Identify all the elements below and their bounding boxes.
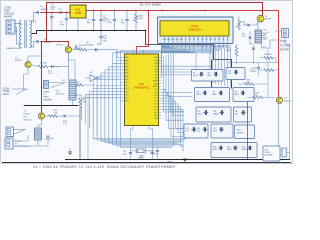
label R2 (83, 99, 87, 104)
svg-text:PB1: PB1 (125, 60, 128, 62)
svg-text:AUTO: AUTO (213, 148, 219, 151)
wire RL2 gnd (72, 100, 74, 105)
wire mid vertical (75, 60, 82, 95)
svg-text:PC4: PC4 (154, 98, 157, 100)
svg-text:4.7V: 4.7V (63, 123, 68, 125)
capacitor C12 (250, 63, 260, 77)
label R1 (40, 63, 48, 65)
svg-text:10K: 10K (246, 82, 250, 84)
svg-text:7805: 7805 (75, 11, 82, 15)
junction 12V (46, 12, 48, 14)
label X1 (33, 21, 37, 24)
LCD1 display (160, 21, 229, 36)
label T4 (15, 58, 22, 63)
wire T4 down (24, 68, 28, 90)
transformer X1 (20, 20, 32, 48)
switch box S9 (234, 107, 252, 122)
junctions GND rail (51, 30, 128, 32)
resistor R15 (226, 44, 238, 63)
svg-text:16V: 16V (103, 41, 107, 43)
svg-text:PC7: PC7 (154, 89, 157, 91)
diode D7 label (263, 47, 266, 49)
bus IC2 port C to switch matrix (161, 89, 192, 150)
label ZD2 (242, 34, 247, 38)
svg-text:GND: GND (167, 161, 172, 163)
bus IC2 right lower (164, 52, 184, 145)
svg-text:PB6: PB6 (125, 76, 128, 78)
bus LCD control top (162, 44, 230, 53)
svg-text:MED: MED (235, 94, 240, 96)
wire ZD1 right (54, 66, 69, 67)
switch box S12 (211, 124, 233, 138)
LCD module box (158, 17, 234, 44)
zener ZD2 (63, 114, 68, 125)
label ZD1 (48, 71, 53, 76)
svg-text:12V 1C/O: 12V 1C/O (24, 119, 33, 121)
svg-text:PB2: PB2 (125, 63, 128, 65)
diode D2 (37, 40, 39, 43)
label D1 (41, 6, 49, 11)
capacitor C3 (92, 10, 95, 30)
capacitor C9 (151, 151, 159, 156)
svg-text:5.1V: 5.1V (48, 73, 53, 75)
svg-text:PB0: PB0 (125, 57, 128, 59)
svg-text:0.1µ: 0.1µ (107, 22, 112, 24)
wire box links right (247, 102, 249, 160)
svg-text:PD0: PD0 (125, 98, 128, 100)
svg-text:JHD162A: JHD162A (188, 27, 201, 31)
diode D4 (74, 44, 81, 50)
wire D1 to IC1 input (40, 12, 70, 14)
svg-text:8MHz: 8MHz (139, 158, 144, 160)
label diode note (140, 2, 162, 6)
wire T5 emitter (68, 53, 75, 60)
bus LCD data to IC2 port (161, 44, 194, 78)
wire CON2 to X1 (14, 24, 22, 45)
label RL3 (263, 33, 268, 40)
label C10 (103, 36, 108, 43)
wire R14 (45, 115, 63, 117)
transistor T3 (257, 15, 264, 22)
junction GND (145, 30, 147, 32)
transistor T2 (276, 97, 282, 103)
svg-text:PC2: PC2 (154, 104, 157, 106)
diode D7v (250, 44, 256, 63)
resistor R18 (238, 79, 268, 85)
svg-text:PB7: PB7 (125, 79, 128, 81)
switch box S13 S14 S15 (211, 143, 257, 158)
resistor R17 (253, 68, 279, 73)
capacitor C5 (113, 10, 116, 30)
wire GND bus bottom (65, 159, 290, 161)
svg-text:ATMEGA32: ATMEGA32 (134, 86, 150, 90)
label C3 (87, 20, 91, 25)
label D2 (44, 39, 52, 44)
svg-text:RS: RS (176, 39, 178, 41)
switch box S2 S3 (192, 70, 224, 82)
svg-text:BC547: BC547 (57, 44, 64, 46)
label C1 (51, 4, 56, 11)
svg-text:PA1: PA1 (155, 59, 158, 62)
ground symbol (167, 159, 187, 163)
svg-text:12V 1C/O: 12V 1C/O (56, 93, 65, 95)
wire right cross (228, 62, 278, 63)
svg-text:PB5: PB5 (125, 73, 128, 75)
wire R4 right (87, 49, 95, 51)
bus IC2 left lower (82, 85, 121, 136)
border frame (1, 1, 293, 164)
capacitor C10 below gnd (97, 31, 103, 45)
svg-text:MELT: MELT (213, 94, 219, 96)
LED D8 (46, 136, 54, 146)
wire T5 base (72, 49, 79, 51)
capacitor C4 (99, 10, 102, 30)
relay RL1 contacts top (12, 88, 28, 94)
gate N1 (85, 72, 102, 81)
capacitor C6 (125, 10, 128, 30)
label RL2 (56, 91, 65, 96)
relay RL2 contacts (49, 80, 68, 88)
svg-text:XT2: XT2 (125, 91, 128, 93)
svg-text:BC547: BC547 (284, 101, 291, 103)
LCD pins 1-16 (163, 36, 229, 48)
svg-text:VSS: VSS (163, 39, 166, 41)
wire black relay left (24, 105, 78, 107)
svg-text:SAMI: SAMI (214, 113, 219, 116)
label C4 (103, 16, 109, 23)
transistor T5 (65, 47, 71, 53)
bus link left (113, 50, 163, 63)
svg-text:PC1: PC1 (154, 107, 157, 109)
svg-text:PA5: PA5 (155, 71, 158, 74)
switch box S4 S5 (195, 88, 230, 102)
svg-text:R1 10K: R1 10K (40, 63, 48, 65)
label CON4 (3, 89, 11, 96)
svg-text:PD6: PD6 (154, 115, 157, 117)
svg-text:K: K (227, 39, 228, 41)
preset VR1 (133, 10, 139, 30)
svg-text:TO MO: TO MO (3, 91, 11, 93)
bus drops right column (213, 46, 231, 87)
wire +5V drop to IC2 (137, 11, 149, 55)
diode D1 (37, 11, 39, 14)
label CON5 (15, 141, 31, 148)
wire 12V left drop (42, 13, 47, 114)
svg-text:D6: D6 (214, 39, 216, 41)
diode D9 (86, 42, 97, 51)
wire 12V to T5 (41, 42, 69, 89)
wire T3 down (257, 22, 259, 31)
label C6 (121, 20, 125, 25)
wire GND rail top (31, 31, 146, 34)
svg-text:D5: D5 (210, 39, 212, 41)
svg-text:1N4007: 1N4007 (41, 9, 49, 11)
wire T4 base link (31, 65, 38, 67)
svg-text:BC547: BC547 (265, 19, 272, 21)
wire D1 out (39, 12, 41, 14)
wire right edge (285, 38, 290, 160)
wire RL3 contacts (262, 30, 282, 48)
zener ZD1 (48, 65, 60, 68)
svg-text:PD7: PD7 (154, 112, 157, 114)
svg-text:1N4007: 1N4007 (44, 42, 52, 44)
label box PL2 (235, 125, 255, 139)
wire CON5 link (13, 135, 48, 146)
svg-text:VEE: VEE (171, 39, 174, 41)
label T3 (265, 16, 272, 21)
resistor R19 (247, 93, 276, 99)
wire X1 sec top (30, 13, 37, 22)
wire D2 out (40, 41, 47, 43)
transistor T4 (25, 61, 31, 67)
piezo element (281, 148, 290, 157)
switch box S10 S11 (184, 124, 208, 138)
wire +5V right drop (278, 11, 280, 98)
svg-text:PA3: PA3 (155, 65, 158, 68)
svg-text:TO OVEN: TO OVEN (280, 45, 291, 47)
ground symbol left (68, 148, 72, 155)
bus IC2 upper right rows (161, 50, 213, 75)
svg-text:PC5: PC5 (154, 95, 157, 97)
svg-text:AREF: AREF (153, 79, 158, 82)
svg-text:AVCC: AVCC (153, 85, 158, 88)
label CON3 (280, 41, 291, 52)
wire GND drop B (211, 60, 213, 90)
wire IC1 gnd (77, 18, 79, 30)
svg-text:BC547: BC547 (24, 113, 31, 115)
resistor R5 (74, 82, 95, 86)
wire T5 to RL2 (67, 53, 69, 80)
capacitor C2 (65, 12, 68, 31)
svg-text:D1 - D7 = 1N4007: D1 - D7 = 1N4007 (140, 2, 162, 6)
bus IC2 port B to keys (93, 58, 186, 148)
svg-text:X1 = 230V AC PRIMARY TO 15V-0-: X1 = 230V AC PRIMARY TO 15V-0-15V, 500mA… (33, 165, 176, 169)
wire T2 down (278, 103, 280, 147)
resistor R4 (78, 45, 87, 51)
svg-text:PB4: PB4 (125, 70, 128, 72)
capacitor C1 (50, 12, 54, 31)
svg-text:CHASSIS GND: CHASSIS GND (6, 47, 21, 50)
svg-text:D0: D0 (189, 39, 191, 41)
svg-text:PC0: PC0 (154, 109, 157, 111)
wire D9 right (98, 50, 120, 58)
capacitor C8 (123, 151, 132, 156)
caption X1 transformer note (33, 165, 176, 169)
svg-text:RST: RST (125, 82, 128, 84)
crystal XTAL1 (131, 129, 153, 159)
svg-text:PA2: PA2 (155, 62, 158, 65)
wire left nest extra (87, 95, 89, 159)
capacitor C11 (151, 147, 160, 160)
svg-text:XT1: XT1 (125, 94, 128, 96)
relay RL1 contacts (14, 129, 26, 134)
svg-text:CON4: CON4 (3, 89, 10, 91)
svg-text:10KE: 10KE (226, 50, 232, 52)
wire 12V top rail (47, 3, 263, 16)
svg-text:CON3: CON3 (280, 41, 287, 43)
resistor R14 (49, 110, 59, 118)
diode D3 (59, 9, 62, 14)
switch box S16 (226, 68, 245, 80)
svg-text:D3: D3 (201, 39, 203, 41)
label T5 (57, 42, 64, 47)
wire T1 to RL1 coil (38, 119, 42, 128)
svg-text:BUZZER: BUZZER (265, 155, 274, 157)
connector CON6 (44, 81, 49, 89)
svg-text:PB3: PB3 (125, 67, 128, 69)
resistor R1 (38, 65, 48, 68)
switch box S6 (233, 88, 254, 102)
relay RL3 coil (255, 30, 262, 43)
label C2 (60, 22, 65, 27)
svg-text:PD5: PD5 (154, 118, 157, 120)
svg-text:10K: 10K (139, 18, 143, 20)
wire +5V rail (86, 10, 279, 12)
svg-text:PD1: PD1 (125, 101, 128, 103)
wire T4 up (28, 56, 43, 61)
label C5 (107, 20, 112, 25)
connector CON3 (282, 29, 289, 38)
wire RL1 coil bottom (37, 140, 39, 146)
label CON2 (4, 6, 14, 19)
relay RL2 coil (69, 80, 76, 100)
svg-text:5.1V: 5.1V (242, 36, 247, 38)
svg-text:PC6: PC6 (154, 92, 157, 94)
svg-text:LIGHT: LIGHT (3, 94, 10, 96)
svg-text:10K: 10K (83, 102, 87, 104)
svg-text:(O)SL: (O)SL (193, 75, 199, 77)
relay RL1 coil (35, 128, 42, 140)
label chassis (6, 47, 21, 50)
label T2 (284, 98, 291, 103)
bottom frame line (2, 162, 291, 164)
svg-text:PA4: PA4 (155, 68, 158, 71)
label CON6 (43, 92, 52, 102)
regulator IC1 7805 (70, 5, 86, 18)
label crystal (139, 154, 146, 159)
svg-text:25V: 25V (51, 9, 55, 11)
svg-text:PC3: PC3 (154, 101, 157, 103)
junctions +5V rail (93, 10, 263, 12)
svg-text:PA0: PA0 (155, 56, 158, 59)
svg-text:PA7: PA7 (155, 77, 158, 80)
connector CON5 (5, 138, 13, 149)
label T1 RL1 (24, 110, 33, 121)
label VR1 (139, 16, 144, 21)
svg-text:BC557: BC557 (15, 60, 22, 62)
svg-text:PA6: PA6 (155, 74, 158, 77)
switch box S7 S8 (196, 107, 231, 122)
resistor R2 (79, 95, 82, 160)
connector CON4 box (6, 127, 14, 137)
resistor R8 (236, 16, 248, 30)
svg-text:D2: D2 (197, 39, 199, 41)
piezo PZ1 (263, 146, 280, 161)
svg-text:470µ: 470µ (51, 6, 56, 8)
zener ZD2 (248, 31, 251, 44)
connector CON2 (6, 20, 15, 34)
svg-text:D1: D1 (193, 39, 195, 41)
transistor T1 (38, 113, 44, 119)
wire ZD2 right (67, 113, 80, 116)
svg-text:NORM: NORM (237, 133, 244, 135)
svg-text:HEATER: HEATER (43, 98, 52, 101)
microcontroller IC2 ATMEGA32 (121, 50, 162, 129)
svg-text:MAINS: MAINS (4, 15, 12, 19)
svg-text:1N4148: 1N4148 (86, 45, 94, 47)
diode D5 (239, 22, 257, 30)
resistor R16 (260, 54, 276, 63)
svg-text:MOTOR: MOTOR (280, 50, 289, 52)
svg-text:D4: D4 (206, 39, 208, 41)
wire right mid (267, 48, 269, 97)
wire GND drop A (146, 31, 232, 89)
wire X1 sec bot (30, 42, 37, 48)
svg-text:D7: D7 (218, 39, 220, 41)
svg-text:1.5K: 1.5K (54, 112, 59, 114)
svg-text:FAST: FAST (227, 148, 233, 151)
svg-text:DOOR SWITCH: DOOR SWITCH (15, 146, 31, 148)
svg-text:E: E (185, 39, 186, 41)
